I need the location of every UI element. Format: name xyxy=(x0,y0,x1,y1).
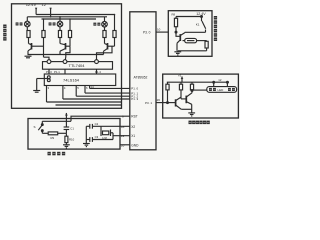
power rail C xyxy=(42,18,97,20)
svg-text:S: S xyxy=(34,125,36,129)
label S2 xyxy=(34,125,36,129)
resistor R10 (vertical) xyxy=(65,133,75,145)
label 绿灯 xyxy=(49,22,56,25)
capacitor C1 xyxy=(64,121,75,133)
svg-text:R8: R8 xyxy=(172,13,176,17)
wire X1 xyxy=(113,135,130,137)
svg-text:P3. 1: P3. 1 xyxy=(145,101,152,105)
transistor Q5 xyxy=(176,97,192,109)
capacitor C3 xyxy=(86,135,113,142)
label 黄灯 xyxy=(93,23,100,26)
+5V arrow IR xyxy=(178,74,183,83)
wire GND xyxy=(120,144,130,146)
supply label 12 xyxy=(42,2,47,7)
power rail A xyxy=(36,14,115,16)
MCU pin P1.2 label xyxy=(131,94,138,98)
svg-text:X2: X2 xyxy=(131,125,135,129)
svg-text:4: 4 xyxy=(64,86,66,90)
7404 input pin marks xyxy=(46,70,101,74)
transistor Q3 xyxy=(104,38,115,55)
sensor component (pill) xyxy=(183,38,207,42)
IR supply rail xyxy=(167,81,229,83)
bus line P1.1 xyxy=(85,92,131,94)
svg-text:GND: GND xyxy=(131,143,139,147)
reset rail xyxy=(42,120,71,122)
wire into base xyxy=(176,32,180,36)
bus line extra2 xyxy=(56,104,122,106)
bus line P1.0 xyxy=(90,87,131,89)
svg-text:12M: 12M xyxy=(102,137,107,140)
wire 164 inputs to ground xyxy=(37,79,48,91)
svg-text:5: 5 xyxy=(77,86,79,90)
MCU pin X1 label, pin 19 xyxy=(121,134,135,138)
LED module top stubs xyxy=(213,81,229,86)
resistor R6 pullup xyxy=(113,15,116,38)
wire 7404 out2 to Q2 base xyxy=(65,46,70,61)
supply label 12.4V xyxy=(26,2,37,7)
svg-text:TTL7404: TTL7404 xyxy=(69,63,86,68)
MCU pin P3.0 label xyxy=(143,31,151,35)
inverter IC TTL7404 xyxy=(43,62,113,70)
wire 7404 out3 to Q3 base xyxy=(97,46,113,61)
wire X2 xyxy=(86,125,130,127)
svg-text:P1. 3: P1. 3 xyxy=(131,97,138,101)
crystal Y1 xyxy=(101,126,113,140)
switch K1 xyxy=(196,17,206,33)
test supply rail xyxy=(176,16,202,18)
reset block box xyxy=(28,119,120,150)
test block box xyxy=(168,11,212,57)
svg-text:X1: X1 xyxy=(131,134,135,138)
reset node wire xyxy=(42,132,66,134)
wire base Q5 xyxy=(163,102,176,104)
transistor Q6 xyxy=(186,93,192,113)
label 红外LED inside module xyxy=(209,88,235,92)
resistor R11 xyxy=(205,41,208,51)
svg-text:R10: R10 xyxy=(69,137,75,141)
transistor Q1 xyxy=(28,38,44,58)
164 output stub QA xyxy=(90,85,95,89)
shift register 74LS164 xyxy=(44,74,115,86)
7404 bubble 3 xyxy=(95,60,99,64)
7404 bubble 2 xyxy=(63,60,67,64)
164 output stub QC xyxy=(76,86,79,97)
vertical label 显示电路 (left) xyxy=(3,25,6,41)
resistor R5 xyxy=(103,31,106,38)
svg-text:6: 6 xyxy=(86,86,88,90)
wire RST xyxy=(71,116,130,121)
ground G5 xyxy=(174,51,181,55)
MCU pin P1.3 label xyxy=(131,97,138,101)
bus line P1.3 xyxy=(63,98,131,100)
wire 7404 out1 to Q1 base xyxy=(44,57,50,61)
wire P3.0 to test box, pin 10 xyxy=(156,28,168,32)
node dot base xyxy=(175,31,177,33)
MCU pin P1.1 label xyxy=(131,91,138,95)
svg-text:74LS164: 74LS164 xyxy=(63,78,80,83)
collector wire to switch xyxy=(185,31,206,33)
resistor R9 (horizontal) xyxy=(48,132,58,140)
label 红外发射电路 (below IR box) xyxy=(189,121,210,125)
power rail B xyxy=(27,16,107,18)
reset switch S xyxy=(38,121,43,133)
MCU AT89S52 xyxy=(130,12,156,150)
resistor R14 xyxy=(190,82,193,93)
transistor Q4 xyxy=(177,32,185,51)
IR transmit block box xyxy=(163,74,239,118)
svg-text:+5: +5 xyxy=(178,74,182,78)
crystal ground rail xyxy=(85,126,87,143)
resistor R13 xyxy=(179,82,182,99)
MCU pin X2 label, pin 18 xyxy=(121,125,135,129)
ground G4 xyxy=(83,144,90,147)
svg-text:LED: LED xyxy=(218,88,225,92)
resistor R8 xyxy=(172,13,178,33)
+5V arrow into reset box xyxy=(65,113,68,122)
resistor R2 pullup xyxy=(42,19,45,38)
MCU pin P1.0 label xyxy=(131,87,138,91)
164 output stub QH xyxy=(47,86,50,103)
svg-text:AT89S52: AT89S52 xyxy=(134,76,148,80)
lamp L1 (red) xyxy=(25,17,31,31)
label 12 above module xyxy=(218,78,222,82)
lamp L2 (green) xyxy=(57,17,63,31)
label 12.4V xyxy=(196,12,206,16)
7404 bubble 1 xyxy=(47,60,51,64)
164 output stub QB xyxy=(85,86,88,94)
svg-text:P1. 0: P1. 0 xyxy=(131,87,138,91)
svg-text:C2: C2 xyxy=(95,122,99,126)
ground G3 xyxy=(63,145,70,148)
bus line P1.2 xyxy=(76,95,130,97)
MCU pin P3.1 label xyxy=(145,101,152,105)
bus line extra1 xyxy=(47,101,122,103)
ground G6 xyxy=(188,113,195,116)
svg-text:C3: C3 xyxy=(95,135,99,139)
svg-text:10: 10 xyxy=(157,28,161,32)
wire P3.1 to IR box, pin 26 xyxy=(156,98,163,102)
MCU pin GND label, pin 20 xyxy=(121,143,139,147)
vertical label 测试选择电路 (right of test box) xyxy=(214,16,217,41)
test bottom rail xyxy=(178,50,207,52)
svg-text:C1: C1 xyxy=(70,126,74,130)
transistor Q2 xyxy=(60,38,70,55)
svg-text:12: 12 xyxy=(42,2,47,7)
svg-text:3: 3 xyxy=(48,86,50,90)
wire Q5 collector to Q6 base xyxy=(181,98,186,100)
supply arrow A2 xyxy=(49,8,51,17)
164 output stub QD xyxy=(63,86,66,100)
svg-text:R9: R9 xyxy=(51,136,55,140)
display block outer box xyxy=(12,4,122,109)
svg-text:12: 12 xyxy=(218,78,222,82)
MCU pin RST label, pin 9 xyxy=(122,114,138,118)
capacitor C2 xyxy=(90,122,99,129)
7404 input stubs xyxy=(49,69,97,74)
resistor R12 xyxy=(166,82,169,102)
svg-text:RST: RST xyxy=(131,115,137,119)
IR LED module xyxy=(207,87,237,93)
svg-text:K1: K1 xyxy=(196,23,200,27)
svg-text:12.4V: 12.4V xyxy=(26,2,37,7)
lamp L3 (yellow) xyxy=(102,17,108,31)
ground G1 xyxy=(25,55,104,58)
resistor R1 xyxy=(27,31,30,38)
resistor R4 pullup xyxy=(68,19,71,38)
label 复位电路 (below reset box) xyxy=(48,152,66,156)
resistor R3 xyxy=(58,31,61,38)
svg-text:26: 26 xyxy=(157,98,161,102)
ground G2 xyxy=(33,91,40,93)
wire to LED module xyxy=(191,90,207,92)
164 input bubble B xyxy=(47,79,50,82)
164 input bubble A xyxy=(47,76,50,79)
label 红灯 xyxy=(16,22,23,25)
supply arrow A1 xyxy=(35,8,37,15)
svg-text:P3. 0: P3. 0 xyxy=(143,31,151,35)
